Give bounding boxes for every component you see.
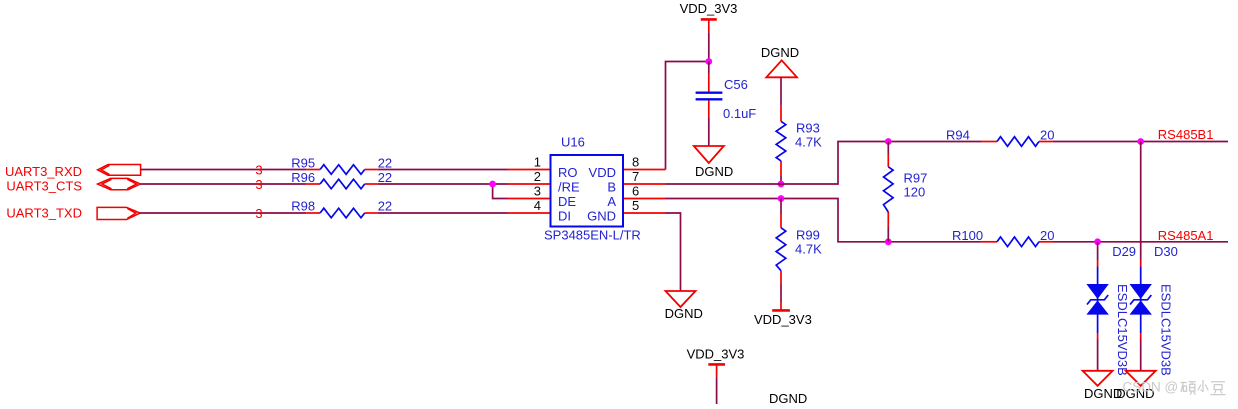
- junction CTS branch: [489, 181, 496, 188]
- wire A net to R99: [780, 199, 782, 215]
- svg-text:RS485A1: RS485A1: [1158, 228, 1214, 243]
- power VDD_3V3 below R99 symbol: [772, 302, 790, 310]
- resistor R97 stubs: [887, 154, 889, 226]
- svg-text:A: A: [607, 194, 616, 209]
- ground DGND under D29: [1083, 371, 1113, 386]
- wire VDD bottom down: [716, 378, 718, 404]
- resistor R95: [320, 165, 365, 175]
- svg-text:0.1uF: 0.1uF: [723, 106, 756, 121]
- svg-text:22: 22: [378, 199, 392, 214]
- wire TXD net: [140, 212, 307, 214]
- svg-text:R98: R98: [291, 199, 315, 214]
- wire VDD stem: [708, 33, 710, 62]
- svg-text:CSDN @: CSDN @: [1123, 380, 1179, 395]
- wire R97 to A net: [887, 226, 889, 241]
- svg-text:3: 3: [255, 163, 262, 178]
- wire CTS to pin2: [378, 183, 508, 185]
- svg-text:4.7K: 4.7K: [795, 242, 822, 257]
- diode D30 pins: [1140, 261, 1142, 340]
- ground DGND under C56: [694, 146, 724, 163]
- svg-text:22: 22: [378, 156, 392, 171]
- svg-text:R95: R95: [291, 156, 315, 171]
- svg-text:UART3_RXD: UART3_RXD: [5, 164, 82, 179]
- svg-text:R97: R97: [904, 171, 928, 186]
- svg-text:D30: D30: [1154, 244, 1178, 259]
- watermark hanzi: [1181, 381, 1225, 395]
- wire C56 to ground: [708, 118, 710, 146]
- wire pin8 to VDD rail: [666, 62, 709, 170]
- resistor R93 stubs: [780, 105, 782, 176]
- wire RXD to pin1: [378, 169, 508, 171]
- svg-text:ESDLC15VD3B: ESDLC15VD3B: [1115, 284, 1130, 376]
- svg-text:UART3_TXD: UART3_TXD: [6, 205, 82, 220]
- wire DGND to R93: [780, 77, 782, 105]
- port UART3_TXD symbol: [97, 207, 140, 219]
- svg-text:VDD_3V3: VDD_3V3: [687, 347, 745, 362]
- wire D30 branch from B net: [1140, 142, 1142, 261]
- junction R93 on B net: [778, 181, 785, 188]
- wire B net to RS485B1: [1053, 141, 1228, 143]
- svg-text:3: 3: [255, 206, 262, 221]
- svg-text:/RE: /RE: [558, 180, 580, 195]
- resistor R100: [997, 237, 1039, 247]
- resistor R94: [997, 137, 1039, 147]
- wire R93 to B net: [780, 176, 782, 184]
- wire A net to RS485A1: [1053, 241, 1228, 243]
- svg-text:7: 7: [632, 169, 639, 184]
- svg-text:22: 22: [378, 170, 392, 185]
- wire D30 to ground: [1140, 339, 1142, 371]
- junction R97 bottom: [885, 238, 892, 245]
- junction R97 top: [885, 138, 892, 145]
- op-amp U16 pin stubs left: [508, 170, 551, 214]
- wire CTS branch to pin3: [493, 184, 508, 199]
- junction R99 on A net: [778, 195, 785, 202]
- wire TXD to pin4: [378, 212, 508, 214]
- port UART3_RXD symbol: [98, 165, 141, 176]
- power VDD_3V3 top symbol: [701, 19, 717, 32]
- resistor R95 stubs: [306, 169, 378, 171]
- resistor R98: [320, 208, 365, 218]
- svg-text:1: 1: [534, 155, 541, 170]
- wire B net to R97: [887, 142, 889, 155]
- svg-text:6: 6: [632, 184, 639, 199]
- wire R99 to VDD_3V3: [780, 284, 782, 302]
- svg-text:VDD_3V3: VDD_3V3: [754, 312, 812, 327]
- wire D29 branch: [1097, 242, 1099, 261]
- diode D29 TVS symbol: [1086, 267, 1108, 334]
- svg-text:UART3_CTS: UART3_CTS: [6, 178, 82, 193]
- svg-text:DGND: DGND: [665, 306, 703, 321]
- ground DGND flipped above R93: [766, 60, 797, 77]
- svg-text:DGND: DGND: [769, 391, 807, 404]
- U16 pin stubs right: [623, 170, 666, 214]
- ground DGND under pin5: [666, 291, 696, 307]
- svg-text:RO: RO: [558, 165, 578, 180]
- svg-text:R94: R94: [946, 128, 970, 143]
- svg-text:DGND: DGND: [695, 164, 733, 179]
- wire VDD to C56: [708, 62, 710, 74]
- svg-text:20: 20: [1040, 128, 1054, 143]
- svg-text:DE: DE: [558, 194, 576, 209]
- svg-text:R93: R93: [796, 121, 820, 136]
- wire A net from pin6: [666, 199, 982, 242]
- svg-text:20: 20: [1040, 228, 1054, 243]
- resistor R93: [776, 121, 786, 161]
- svg-text:VDD_3V3: VDD_3V3: [680, 1, 738, 16]
- svg-text:4.7K: 4.7K: [795, 135, 822, 150]
- wire RXD net: [141, 169, 307, 171]
- svg-text:GND: GND: [587, 209, 616, 224]
- svg-text:8: 8: [632, 155, 639, 170]
- capacitor C56 pins: [708, 73, 710, 118]
- svg-text:R100: R100: [952, 228, 983, 243]
- resistor R99 stubs: [780, 214, 782, 284]
- capacitor C56 plates: [696, 93, 723, 100]
- wire CTS net: [140, 183, 306, 185]
- svg-text:C56: C56: [724, 77, 748, 92]
- resistor R97: [884, 167, 894, 212]
- svg-text:D29: D29: [1112, 244, 1136, 259]
- diode D30 TVS symbol: [1130, 267, 1152, 334]
- svg-text:DI: DI: [558, 209, 571, 224]
- svg-text:3: 3: [255, 177, 262, 192]
- wire B net from pin7: [666, 142, 982, 185]
- svg-text:R99: R99: [796, 228, 820, 243]
- svg-text:120: 120: [904, 185, 926, 200]
- svg-text:2: 2: [534, 169, 541, 184]
- svg-text:VDD: VDD: [589, 165, 616, 180]
- svg-text:4: 4: [534, 198, 541, 213]
- wire pin5 to ground: [666, 213, 681, 291]
- resistor R100 stubs: [982, 241, 1053, 243]
- resistor R99: [776, 228, 786, 271]
- diode D29 pins: [1097, 261, 1099, 340]
- svg-text:DGND: DGND: [761, 45, 799, 60]
- ground DGND under D30: [1126, 371, 1156, 386]
- svg-text:RS485B1: RS485B1: [1158, 127, 1214, 142]
- svg-text:U16: U16: [561, 135, 585, 150]
- junction D29 on A net: [1094, 238, 1101, 245]
- wire D29 to ground: [1097, 339, 1099, 371]
- junction D30 on B net: [1137, 138, 1144, 145]
- resistor R98 stubs: [306, 212, 378, 214]
- svg-text:ESDLC15VD3B: ESDLC15VD3B: [1159, 284, 1174, 376]
- IC U16 body: [551, 155, 624, 227]
- power VDD_3V3 bottom symbol: [708, 364, 725, 378]
- svg-text:SP3485EN-L/TR: SP3485EN-L/TR: [544, 228, 641, 243]
- svg-text:B: B: [607, 180, 616, 195]
- svg-text:R96: R96: [291, 170, 315, 185]
- svg-text:3: 3: [534, 184, 541, 199]
- resistor R96: [320, 179, 365, 189]
- port UART3_CTS symbol: [98, 178, 141, 189]
- resistor R94 stubs: [982, 141, 1053, 143]
- junction VDD rail: [705, 58, 712, 65]
- resistor R96 stubs: [306, 183, 378, 185]
- svg-text:5: 5: [632, 198, 639, 213]
